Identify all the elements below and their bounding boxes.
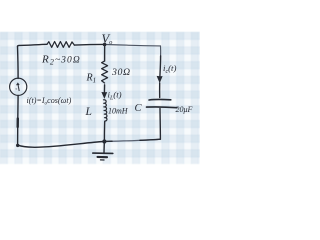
ground [93,153,113,160]
svg-text:i(t)=Iocos(ωt): i(t)=Iocos(ωt) [27,96,72,107]
wire left vertical upper [17,46,20,78]
svg-text:30Ω: 30Ω [111,67,131,78]
wire inductor to bottom junction [103,122,105,142]
inductor L coil [104,100,107,121]
wire left vertical lower [17,95,20,145]
svg-text:10mH: 10mH [108,107,129,116]
wire left vertical thick ink blob [17,119,19,128]
blob bottom-left corner [16,144,19,147]
svg-text:C: C [135,103,143,114]
wire bottom-right horizontal dark parts [106,139,160,141]
wire capacitor to bottom-right corner [159,109,161,140]
wire node Vo down to resistor R1 [104,45,106,62]
node Vo junction dot [103,43,107,47]
resistor R2 [47,42,74,48]
wire right branch vertical upper dark part [159,56,162,77]
resistor R1 [102,61,108,83]
current arrow iL(t) [101,92,107,99]
wire node Vo to top-right corner [106,45,161,46]
svg-text:L: L [85,106,92,118]
svg-text:20μF: 20μF [176,105,193,114]
capacitor C plates [147,99,178,107]
wire bottom-left horizontal to junction [18,142,104,148]
wire top-left corner to resistor R2 [17,44,47,46]
current source I1 circle [10,78,27,95]
junction dot bottom node [102,139,106,143]
wire junction to ground [103,142,105,153]
wire bottom-right horizontal to junction [106,139,160,141]
wire resistor R2 to node Vo [74,43,103,46]
current arrow ic(t) [157,76,163,83]
wire resistor R1 to arrow iL [103,85,105,97]
wire right branch vertical (below arrow) [159,83,161,98]
wire right branch vertical (top) [160,46,162,56]
svg-text:R2~30Ω: R2~30Ω [41,54,81,67]
